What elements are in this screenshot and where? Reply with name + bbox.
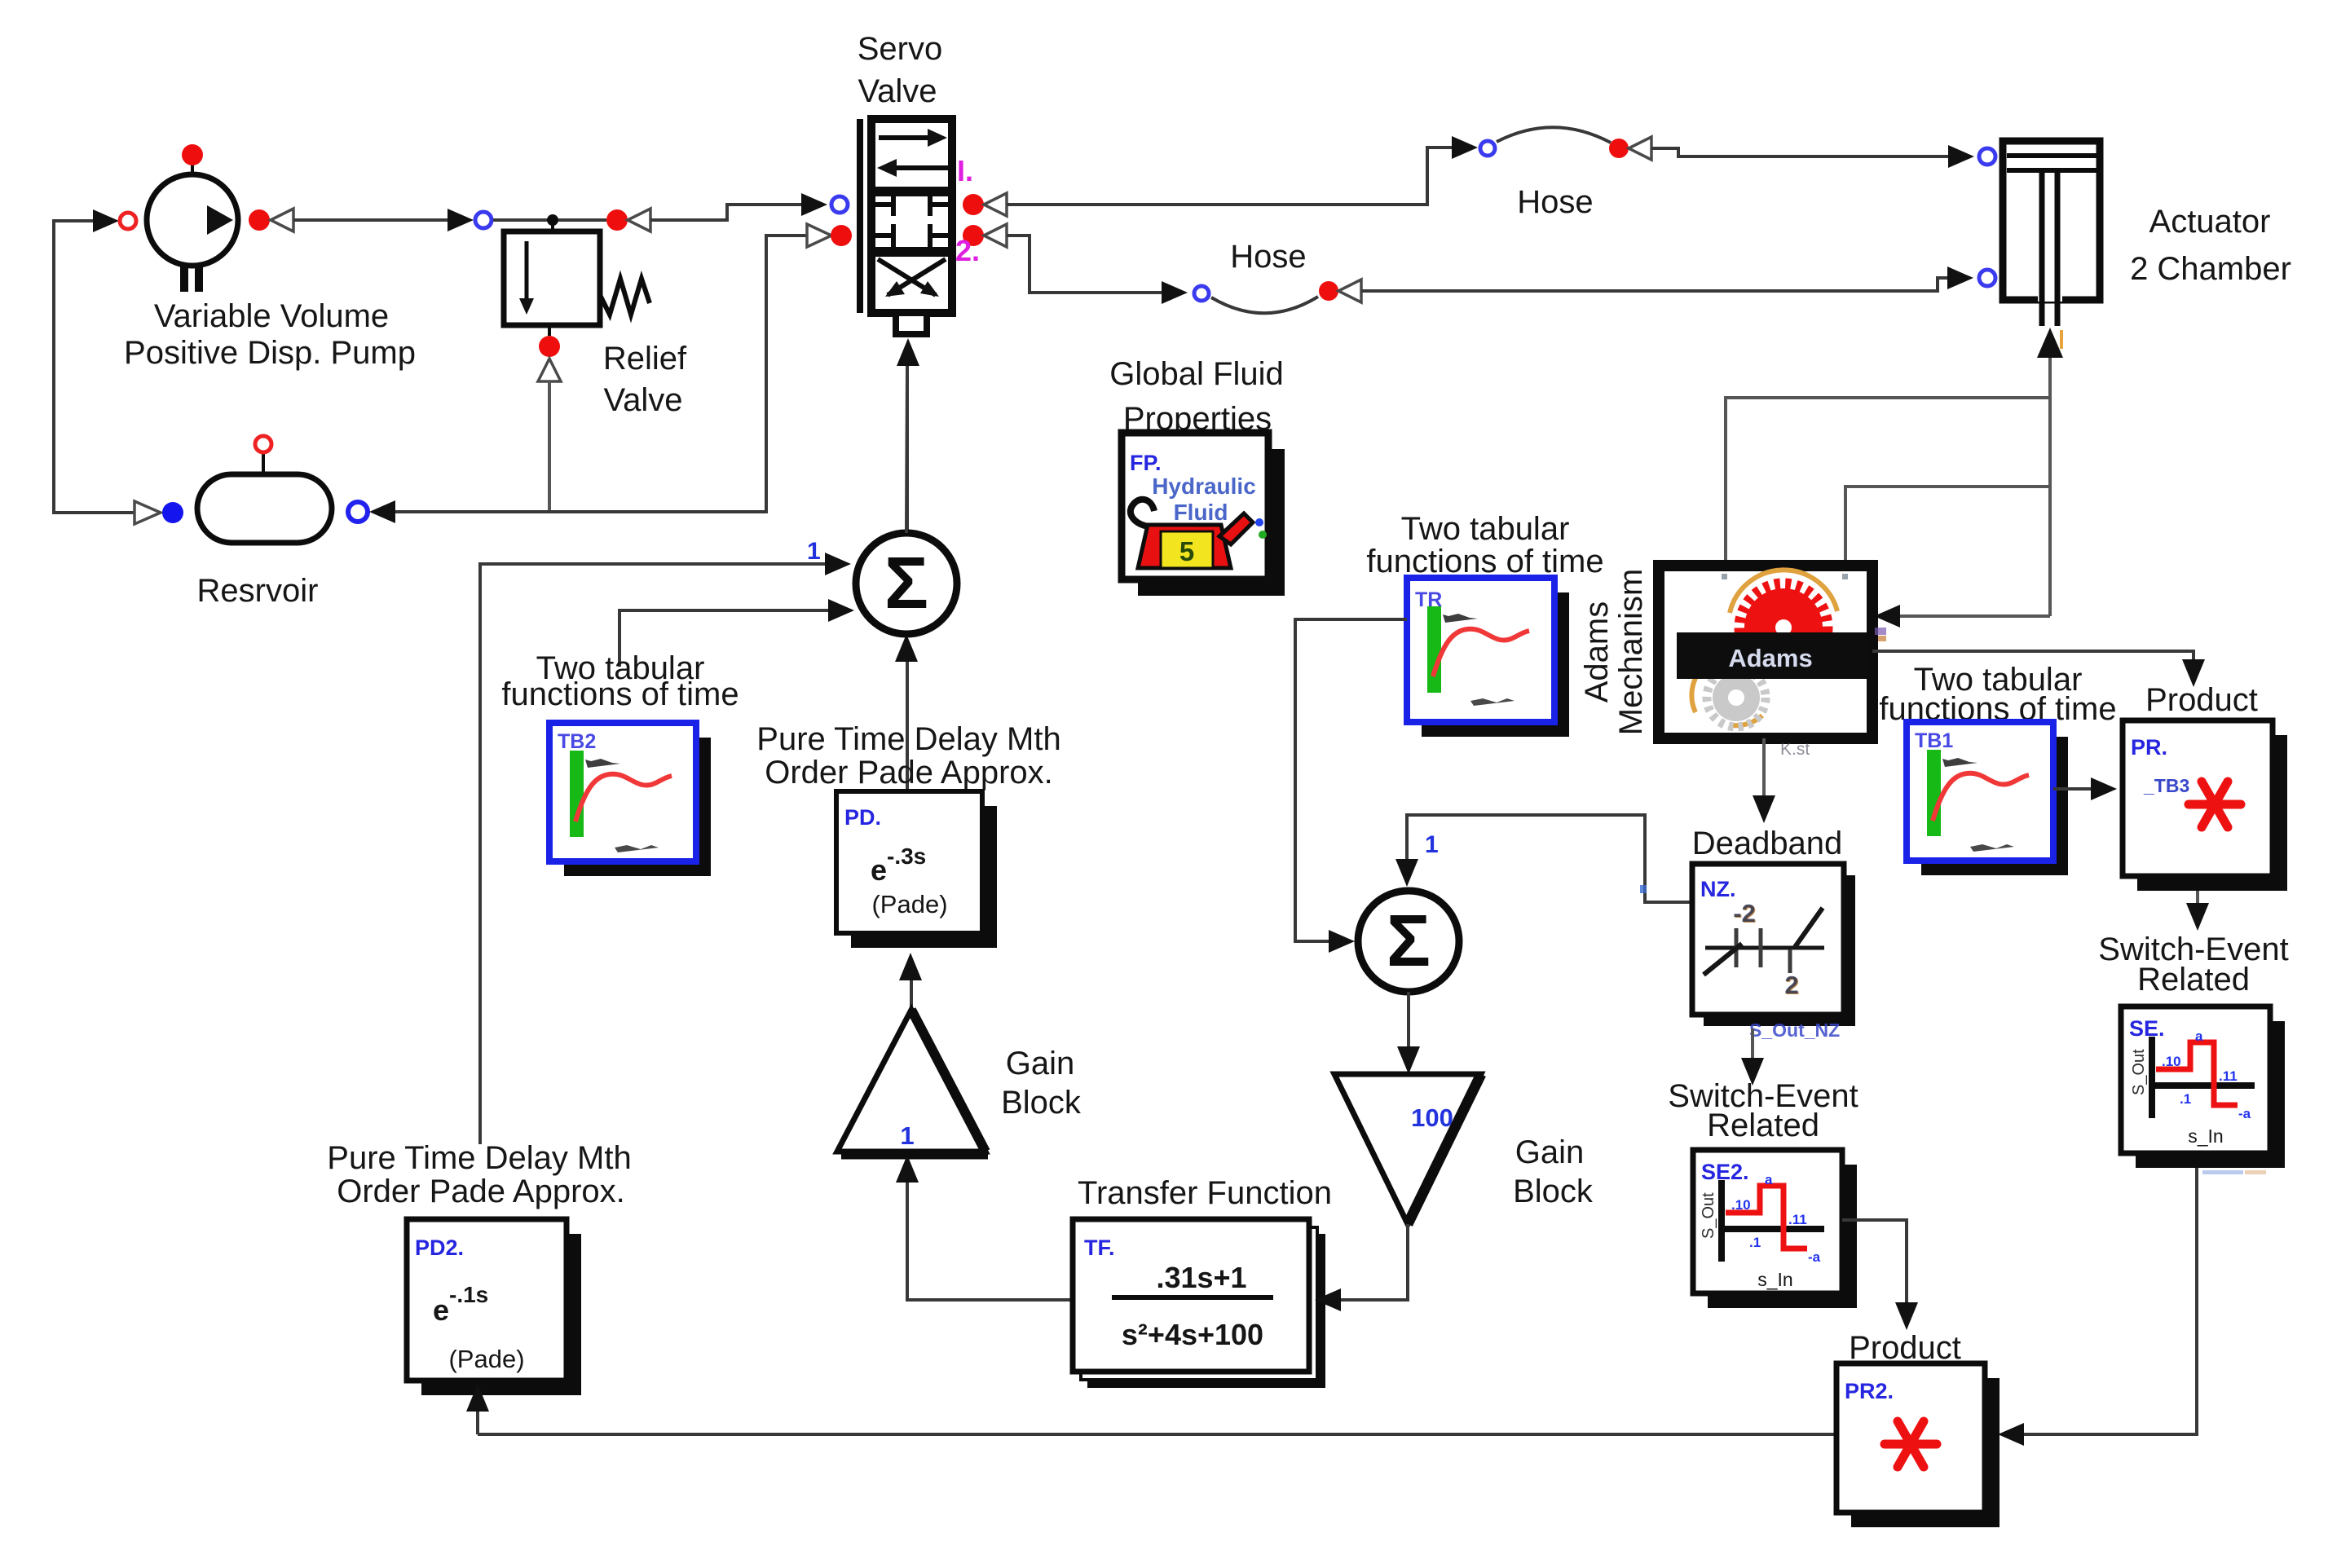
svg-text:Block: Block	[1001, 1085, 1082, 1121]
wire TB1 output into product PR left side	[2053, 777, 2117, 800]
svg-text:Two tabular: Two tabular	[1401, 511, 1570, 547]
svg-text:K.st: K.st	[1780, 740, 1810, 759]
label pure time delay PD	[756, 721, 1060, 791]
svg-text:_TB3: _TB3	[2143, 775, 2189, 796]
svg-text:Adams: Adams	[1579, 601, 1615, 703]
svg-text:1: 1	[1425, 831, 1439, 858]
svg-text:Order Pade Approx.: Order Pade Approx.	[765, 755, 1053, 791]
wire bottom feedback from PR2 to PD2	[478, 1433, 1836, 1436]
svg-text:e: e	[871, 853, 887, 887]
actuator rod position output arrow	[2037, 328, 2063, 358]
svg-text:FP.: FP.	[1130, 451, 1162, 475]
wire SE output down and into PR2 right side	[1998, 1168, 2197, 1446]
svg-text:Transfer Function: Transfer Function	[1078, 1175, 1332, 1211]
svg-text:TB2: TB2	[558, 730, 596, 753]
svg-text:100: 100	[1411, 1103, 1453, 1132]
svg-text:Order Pade Approx.: Order Pade Approx.	[337, 1174, 625, 1209]
junction node above relief valve	[547, 214, 558, 233]
svg-text:2.: 2.	[955, 234, 980, 267]
wire gain 100 output into TF right side	[1315, 1224, 1408, 1311]
svg-text:5: 5	[1179, 536, 1194, 566]
svg-text:Positive Disp. Pump: Positive Disp. Pump	[124, 335, 416, 371]
svg-text:Deadband: Deadband	[1692, 826, 1843, 861]
servo valve SV	[857, 119, 952, 334]
PR2 product block	[1836, 1363, 2000, 1527]
wire servo valve port1 to upper hose	[1007, 148, 1452, 205]
label upper hose	[1517, 184, 1593, 220]
pump P1 variable volume positive displacement pump	[147, 144, 238, 292]
label transfer function TF	[1078, 1175, 1332, 1211]
SE switch-event block	[2121, 1006, 2285, 1168]
wire TF output to gain block G1	[896, 1155, 1073, 1300]
label switch-event related SE2	[1668, 1078, 1858, 1143]
wire pump to relief valve	[293, 218, 449, 222]
wire pump-left loop to reservoir	[54, 221, 134, 513]
svg-text:Variable Volume: Variable Volume	[154, 298, 389, 334]
TR tabular function block	[1407, 578, 1569, 737]
svg-text:TF.: TF.	[1084, 1235, 1115, 1260]
svg-text:PD2.: PD2.	[415, 1235, 464, 1260]
label adams mechanism (rotated)	[1579, 569, 1649, 736]
summer S2 circle	[1358, 891, 1459, 992]
svg-text:Pure Time Delay Mth: Pure Time Delay Mth	[327, 1140, 631, 1176]
svg-text:Related: Related	[1707, 1108, 1819, 1143]
wire NZ bottom output to SE2	[1741, 1028, 1764, 1086]
actuator bottom port (arrow + blue ring)	[1947, 266, 1995, 289]
svg-text:Product: Product	[2145, 682, 2258, 718]
svg-text:SE.: SE.	[2129, 1016, 2165, 1041]
svg-text:S_Out_NZ: S_Out_NZ	[1749, 1020, 1840, 1041]
label deadband	[1692, 826, 1843, 861]
svg-text:1: 1	[900, 1121, 914, 1150]
svg-text:a: a	[2195, 1028, 2203, 1044]
svg-text:a: a	[1765, 1172, 1773, 1187]
reservoir left port (open triangle + blue dot)	[134, 501, 183, 524]
relief valve inlet port (arrow + blue ring)	[448, 209, 606, 231]
label two tabular functions of time TR	[1366, 511, 1603, 579]
svg-text:s_In: s_In	[1757, 1269, 1792, 1290]
label relief valve	[603, 341, 687, 418]
reservoir R1	[197, 436, 332, 543]
wire PR output down to SE	[2186, 891, 2209, 931]
servo valve lower-left port (open triangle + red dot)	[807, 224, 852, 247]
upper hose outlet (red dot + open triangle)	[1609, 137, 1651, 160]
label switch-event related SE	[2098, 932, 2288, 998]
wire deadband NZ output to summer S2 top input	[1395, 815, 1692, 902]
svg-text:Valve: Valve	[603, 382, 682, 418]
svg-text:Mechanism: Mechanism	[1613, 569, 1649, 736]
relief valve RV	[504, 231, 650, 325]
servo valve pilot arrow from summer	[897, 338, 919, 533]
wire PD2 output up and into summer S1 input 1	[480, 553, 851, 1144]
global fluid properties FP label	[1109, 356, 1283, 437]
TB1 tabular function block	[1907, 722, 2068, 875]
NZ deadband block	[1692, 864, 1855, 1026]
svg-text:Fluid: Fluid	[1174, 500, 1228, 525]
wire relief valve drain down to tank line	[548, 381, 551, 510]
svg-text:Global Fluid: Global Fluid	[1109, 356, 1283, 392]
label actuator	[2130, 204, 2291, 287]
svg-text:Gain: Gain	[1006, 1046, 1075, 1081]
wire servo valve port2 to lower hose	[1007, 236, 1162, 293]
TF transfer function block	[1073, 1219, 1325, 1388]
pin label 2. magenta	[955, 234, 980, 267]
wire tank return line	[395, 236, 807, 512]
gain label 1 on summer S1 input	[807, 538, 821, 565]
svg-text:-.3s: -.3s	[887, 843, 926, 869]
svg-text:functions of time: functions of time	[1366, 544, 1603, 579]
svg-text:I.: I.	[957, 154, 973, 187]
svg-text:-a: -a	[1808, 1249, 1821, 1265]
label two tabular functions of time TB2	[501, 650, 739, 712]
wire rod feedback main vertical	[2048, 358, 2052, 616]
svg-text:Hose: Hose	[1230, 239, 1306, 275]
svg-text:.10: .10	[1731, 1197, 1751, 1213]
svg-text:Valve: Valve	[858, 73, 937, 109]
svg-text:2 Chamber: 2 Chamber	[2130, 251, 2291, 287]
upper hose H1 inlet (arrow + blue ring)	[1452, 136, 1495, 159]
svg-text:Hydraulic: Hydraulic	[1152, 473, 1256, 499]
svg-text:Relief: Relief	[603, 341, 687, 377]
relief valve right port (red dot + open triangle)	[606, 209, 650, 231]
svg-text:s_In: s_In	[2188, 1125, 2223, 1147]
PD2 pade delay block	[407, 1219, 581, 1395]
svg-text:PR2.: PR2.	[1845, 1379, 1894, 1403]
svg-text:Related: Related	[2137, 962, 2250, 998]
svg-text:Hose: Hose	[1517, 184, 1593, 220]
PD pade delay block	[836, 791, 997, 948]
lower hose arc	[1211, 297, 1318, 313]
svg-text:s²+4s+100: s²+4s+100	[1122, 1318, 1263, 1351]
wire Adams output right to product PR	[1872, 651, 2205, 687]
wire lower hose to actuator bottom port	[1361, 278, 1947, 291]
reservoir right port (blue ring + arrow)	[348, 500, 395, 523]
wire rod feedback into Adams right side	[1874, 605, 2050, 628]
label servo valve	[858, 31, 943, 109]
upper hose arc	[1497, 127, 1611, 143]
svg-text:PR.: PR.	[2131, 735, 2167, 760]
servo valve upper-left port (arrow + blue ring)	[801, 193, 848, 216]
svg-text:TB1: TB1	[1915, 729, 1953, 752]
summer S2 output down to gain 100	[1397, 992, 1420, 1074]
label pure time delay PD2	[327, 1140, 631, 1209]
smudge below SE shadow	[2202, 1170, 2266, 1174]
SE2 switch-event block	[1693, 1150, 1857, 1308]
relief valve bottom port (red dot + open triangle up)	[538, 325, 561, 381]
Adams mechanism block	[1659, 566, 1872, 738]
svg-text:2: 2	[1784, 971, 1798, 999]
svg-text:-2: -2	[1733, 899, 1756, 927]
label pump	[124, 298, 416, 371]
pump left port (red ring + arrow)	[93, 209, 136, 232]
gain block G1 input arrow from below	[899, 953, 922, 1011]
svg-text:.11: .11	[1788, 1212, 1807, 1227]
summer S1 circle	[856, 533, 957, 634]
wire rod feedback branch 1 to Adams top	[1726, 398, 2050, 564]
svg-text:Gain: Gain	[1515, 1134, 1585, 1170]
svg-text:-a: -a	[2238, 1106, 2251, 1121]
actuator top port (arrow + blue ring)	[1948, 145, 1995, 168]
svg-text:SE2.: SE2.	[1701, 1160, 1749, 1184]
svg-text:Σ: Σ	[884, 543, 928, 624]
label product PR2	[1849, 1330, 1961, 1366]
svg-text:e: e	[433, 1293, 449, 1327]
fuzzy label S_Out_NZ	[1749, 1020, 1840, 1041]
label product PR	[2145, 682, 2258, 718]
wire TR output to summer S2 left input	[1295, 619, 1407, 953]
svg-text:functions of time: functions of time	[501, 676, 739, 712]
svg-text:Adams: Adams	[1728, 644, 1812, 672]
label lower hose	[1230, 239, 1306, 275]
wire TB2 output up and into summer S1 input 2	[619, 599, 854, 667]
smudge at Adams top ports	[1722, 574, 1848, 579]
svg-text:.1: .1	[1749, 1235, 1761, 1250]
svg-text:NZ.: NZ.	[1700, 877, 1736, 901]
PR product block	[2123, 720, 2287, 891]
smudge near Adams right port	[1875, 628, 1886, 641]
lower hose outlet (red dot + open triangle)	[1319, 280, 1361, 302]
actuator A1 two-chamber cylinder	[2003, 141, 2100, 326]
fuzzy label Kst below adams	[1780, 740, 1810, 759]
svg-text:PD.: PD.	[844, 805, 881, 830]
svg-text:Product: Product	[1849, 1330, 1961, 1366]
label gain block G1	[1001, 1046, 1082, 1121]
label two tabular functions of time TB1	[1879, 662, 2116, 727]
svg-text:.11: .11	[2219, 1068, 2238, 1084]
pump right port (red dot + open triangle)	[249, 209, 293, 231]
servo valve right port 1 (red dot + open triangle)	[963, 193, 1007, 216]
gain label 1 on summer S2 input	[1425, 831, 1439, 858]
svg-text:.31s+1: .31s+1	[1156, 1261, 1246, 1294]
wire Adams output bottom to deadband NZ	[1753, 738, 1775, 823]
lower hose H2 inlet (arrow + blue ring)	[1162, 281, 1209, 304]
smudge near NZ wire corner	[1640, 885, 1647, 893]
svg-text:Servo: Servo	[858, 31, 943, 67]
svg-text:Actuator: Actuator	[2149, 204, 2271, 240]
label reservoir	[197, 573, 319, 609]
svg-text:Block: Block	[1513, 1174, 1594, 1209]
svg-text:.1: .1	[2180, 1091, 2191, 1107]
wire relief valve to servo valve upper-left port	[650, 205, 801, 220]
global fluid properties FP block	[1122, 433, 1285, 596]
svg-text:Resrvoir: Resrvoir	[197, 573, 319, 609]
svg-text:(Pade): (Pade)	[448, 1345, 524, 1373]
summer S1 output to servo valve	[906, 366, 907, 533]
TB2 tabular function block	[549, 723, 711, 876]
svg-text:-.1s: -.1s	[449, 1282, 488, 1307]
gain block G1 triangle	[837, 1010, 988, 1156]
svg-text:Σ: Σ	[1387, 901, 1431, 982]
wire rod feedback branch 2 to Adams top	[1845, 487, 2050, 564]
gain block G2 inverted triangle 100	[1334, 1074, 1481, 1224]
pin label 1. magenta	[957, 154, 973, 187]
svg-text:1: 1	[807, 538, 821, 565]
svg-text:(Pade): (Pade)	[871, 890, 947, 918]
servo valve right port 2 (red dot + open triangle)	[963, 224, 1007, 247]
PD2 input arrow from bottom feedback wire	[466, 1384, 489, 1434]
label gain block G2	[1513, 1134, 1594, 1209]
wire SE2 output to product PR2	[1842, 1220, 1918, 1330]
svg-text:S_Out: S_Out	[1700, 1192, 1717, 1239]
svg-text:.10: .10	[2162, 1054, 2181, 1069]
wire upper hose to actuator top port	[1651, 148, 1948, 156]
svg-text:Pure Time Delay Mth: Pure Time Delay Mth	[756, 721, 1060, 757]
svg-text:S_Out: S_Out	[2130, 1049, 2148, 1095]
summer S1 bottom input arrow from PD	[895, 634, 918, 791]
